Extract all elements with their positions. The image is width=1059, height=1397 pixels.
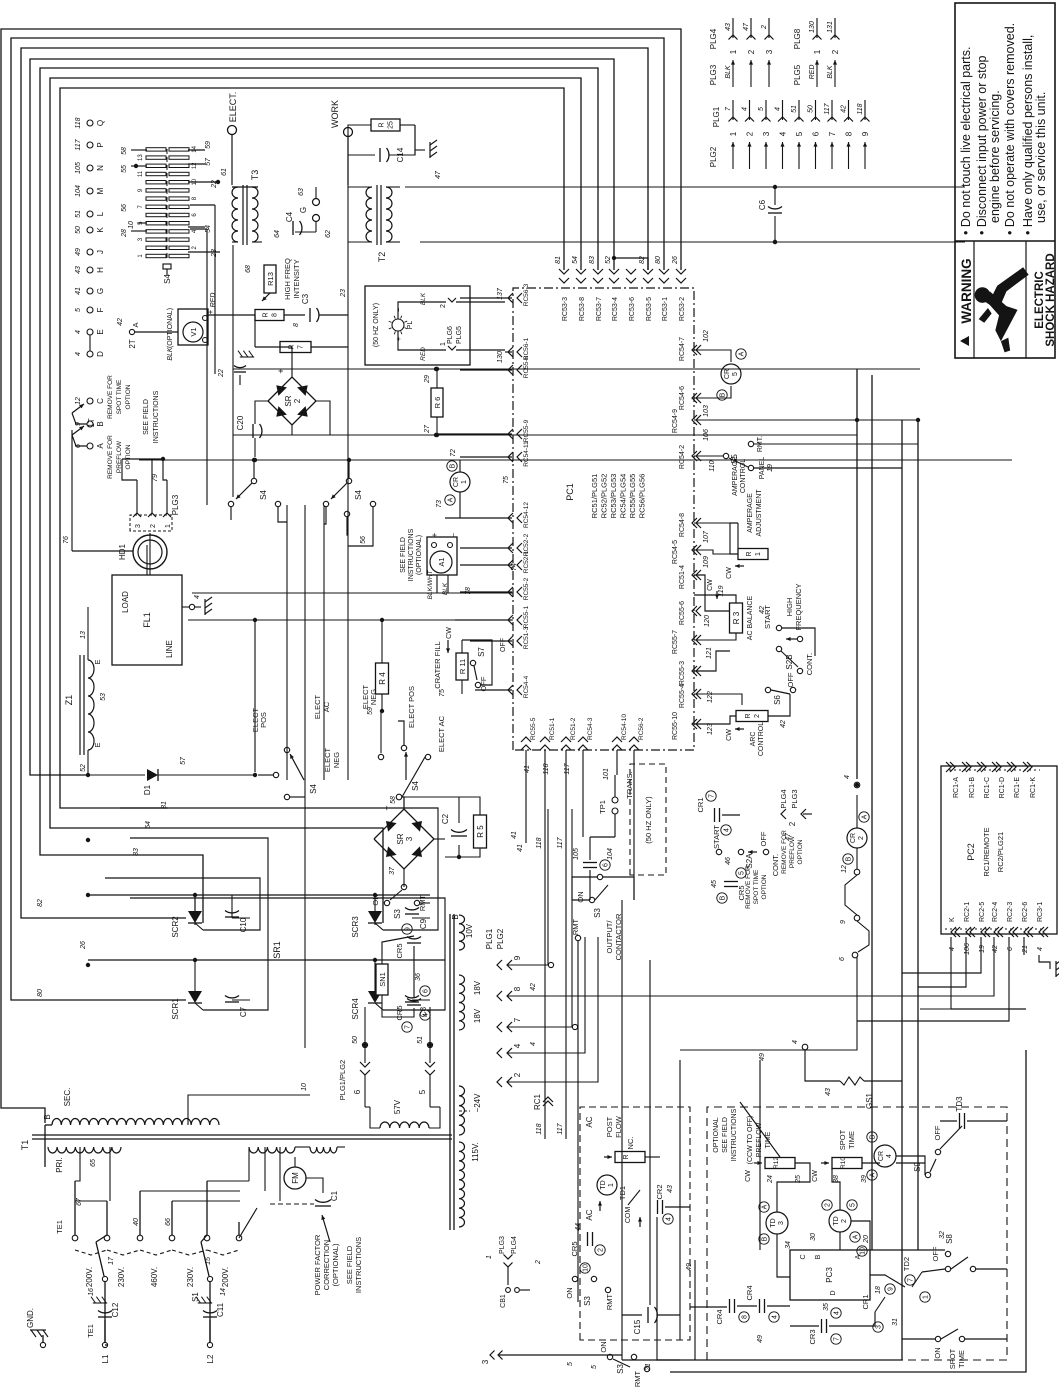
svg-text:RC54-7: RC54-7 [679, 337, 686, 361]
svg-text:SEE FIELD: SEE FIELD [400, 537, 407, 573]
svg-text:5: 5 [850, 1203, 857, 1207]
svg-text:120: 120 [704, 615, 711, 627]
svg-text:C14: C14 [396, 147, 405, 162]
contact CR4 b [759, 1299, 761, 1313]
switch S8 spot time [935, 1336, 940, 1341]
svg-text:130: 130 [497, 351, 504, 363]
voltmeter V1 (optional) [178, 309, 208, 345]
svg-text:ON: ON [599, 1341, 608, 1352]
rectifier SR3 [374, 809, 434, 869]
svg-text:SPOT: SPOT [948, 1348, 957, 1369]
svg-text:4: 4 [792, 1040, 799, 1044]
wire bus 54 [50, 78, 581, 923]
svg-text:18: 18 [875, 1286, 882, 1294]
switch S4 bank lower [346, 478, 351, 483]
capacitor C2 [404, 797, 459, 823]
svg-text:RED: RED [809, 65, 816, 80]
wires TD1 area [606, 1157, 608, 1175]
svg-text:10V: 10V [465, 923, 474, 938]
svg-text:6: 6 [353, 1089, 362, 1094]
svg-text:CW: CW [726, 729, 733, 741]
warning title [960, 336, 969, 346]
svg-text:BLK: BLK [167, 347, 174, 361]
svg-text:TD2: TD2 [902, 1257, 911, 1271]
svg-text:BLK: BLK [420, 292, 427, 305]
svg-text:56: 56 [360, 536, 367, 544]
svg-text:RC54-2: RC54-2 [679, 445, 686, 469]
svg-text:CRATER FILL: CRATER FILL [433, 641, 442, 688]
svg-text:RC55-6: RC55-6 [679, 601, 686, 625]
svg-text:2: 2 [746, 131, 755, 136]
svg-text:TIME: TIME [765, 1131, 772, 1148]
svg-text:!: ! [962, 338, 969, 340]
svg-text:BLK/WHT: BLK/WHT [427, 570, 434, 600]
PC2 wire bends [920, 937, 951, 1009]
wire stubs from PLG pins [530, 809, 548, 965]
svg-text:20: 20 [863, 1235, 870, 1244]
thyristor SCR4 [368, 991, 382, 1003]
svg-text:7: 7 [828, 131, 837, 136]
svg-text:79: 79 [152, 474, 159, 482]
svg-text:3: 3 [481, 1359, 490, 1364]
wires from top-edge connectors [460, 297, 512, 299]
connector 3 bottom [490, 1351, 495, 1360]
svg-text:2: 2 [513, 1072, 522, 1077]
svg-text:3: 3 [762, 131, 771, 136]
svg-text:1: 1 [440, 342, 447, 346]
svg-text:12: 12 [75, 397, 82, 405]
svg-text:64: 64 [274, 230, 281, 238]
svg-text:CONTROL: CONTROL [740, 459, 747, 493]
svg-text:109: 109 [703, 556, 710, 568]
svg-text:8: 8 [742, 1315, 749, 1319]
svg-text:SEC.: SEC. [63, 1088, 72, 1107]
svg-text:NEG: NEG [332, 752, 341, 768]
svg-text:50: 50 [352, 1036, 359, 1044]
svg-text:PLG8: PLG8 [793, 28, 802, 49]
svg-text:RC2-3: RC2-3 [1007, 902, 1014, 922]
circuit card PC3 [790, 1250, 870, 1300]
svg-text:25: 25 [388, 121, 395, 129]
wire 49 run [694, 1260, 696, 1360]
svg-text:115V.: 115V. [471, 1142, 480, 1162]
svg-text:RC53-3: RC53-3 [562, 297, 569, 321]
svg-text:46: 46 [725, 857, 732, 865]
svg-text:B: B [451, 914, 460, 919]
svg-text:RC55-5: RC55-5 [530, 717, 537, 740]
svg-text:CR: CR [453, 477, 460, 487]
svg-text:80: 80 [37, 989, 44, 997]
pot wiper diagonal [740, 1102, 780, 1157]
svg-text:49: 49 [759, 1053, 766, 1061]
svg-text:6: 6 [603, 863, 610, 867]
svg-text:RC55-1: RC55-1 [523, 605, 530, 628]
electric shock icon [975, 267, 1029, 352]
svg-text:COM: COM [625, 1207, 632, 1224]
svg-text:SCR3: SCR3 [351, 916, 360, 938]
svg-text:27: 27 [424, 424, 431, 434]
svg-text:AC: AC [322, 701, 331, 712]
svg-text:5: 5 [75, 308, 82, 312]
svg-text:S4: S4 [163, 274, 172, 284]
svg-text:A: A [853, 1234, 860, 1239]
svg-text:42: 42 [759, 606, 766, 614]
contact CR5 b [407, 1004, 421, 1006]
svg-text:2: 2 [535, 1260, 542, 1265]
svg-text:76: 76 [63, 536, 70, 544]
svg-text:RC51-1: RC51-1 [549, 717, 556, 740]
resistor R25 [371, 119, 400, 131]
svg-text:2: 2 [858, 836, 865, 840]
svg-text:INTENSITY: INTENSITY [292, 259, 301, 298]
wire 41 [525, 750, 527, 843]
wires to primary taps [74, 1181, 76, 1235]
switch S3 on/rmt 10 [572, 1276, 577, 1281]
svg-text:41: 41 [511, 831, 518, 839]
svg-text:21: 21 [1022, 945, 1029, 954]
svg-text:81: 81 [555, 256, 562, 264]
relay CR1 coil [450, 472, 470, 492]
svg-text:22: 22 [218, 369, 225, 378]
svg-text:106: 106 [703, 429, 710, 441]
winding 10V [459, 915, 465, 950]
svg-text:R: R [379, 122, 386, 127]
svg-text:51: 51 [75, 210, 82, 218]
svg-text:54: 54 [205, 225, 212, 233]
svg-text:31: 31 [892, 1318, 899, 1326]
svg-text:RC55-2: RC55-2 [523, 577, 530, 600]
svg-text:CONT.: CONT. [771, 854, 780, 877]
svg-text:43: 43 [825, 1088, 832, 1096]
svg-text:2: 2 [825, 1203, 832, 1207]
svg-text:RC54-4: RC54-4 [523, 675, 530, 698]
svg-text:PLG2: PLG2 [496, 928, 505, 949]
svg-text:Z1: Z1 [64, 695, 74, 706]
svg-text:23: 23 [211, 249, 218, 258]
svg-text:8: 8 [513, 986, 522, 991]
wire 101 to TP1 [616, 750, 618, 775]
svg-text:HIGH: HIGH [785, 598, 794, 617]
svg-text:106: 106 [964, 943, 971, 955]
wire bus 80 [11, 38, 664, 1000]
svg-text:ADJUSTMENT: ADJUSTMENT [756, 489, 763, 537]
svg-text:S3: S3 [393, 909, 402, 919]
wire bus 81 [60, 88, 564, 808]
svg-text:118: 118 [536, 1123, 543, 1134]
svg-text:PLG4: PLG4 [709, 28, 718, 49]
svg-text:TD: TD [833, 1216, 840, 1225]
transformer T1 primary winding 1 [48, 1147, 121, 1153]
wire 79 junction [161, 457, 165, 461]
svg-text:5: 5 [732, 372, 739, 376]
connector RC54-6 [692, 393, 697, 403]
svg-text:AC: AC [585, 1116, 594, 1127]
svg-text:59: 59 [205, 141, 212, 149]
svg-text:P: P [96, 142, 105, 147]
svg-text:65: 65 [90, 1159, 97, 1167]
svg-text:RC53-5: RC53-5 [646, 297, 653, 321]
svg-text:9: 9 [513, 955, 522, 960]
crater fill pot R11 [456, 653, 468, 680]
svg-text:200V.: 200V. [85, 1267, 94, 1287]
svg-text:K: K [949, 917, 956, 922]
stud ELECT. [228, 126, 237, 135]
svg-text:61: 61 [221, 168, 228, 176]
svg-text:3: 3 [876, 1325, 883, 1329]
svg-text:RC1-D: RC1-D [999, 777, 1006, 798]
svg-text:E: E [93, 742, 102, 747]
wire run 680 [679, 1060, 681, 1340]
svg-text:T1: T1 [20, 1140, 30, 1151]
svg-text:B: B [762, 1236, 769, 1241]
svg-text:131: 131 [827, 21, 834, 33]
transformer T1 primary winding 2 [249, 1147, 295, 1153]
wire bus 52 branch [614, 258, 648, 270]
svg-text:9: 9 [840, 920, 847, 924]
svg-text:5: 5 [758, 107, 765, 111]
svg-text:START: START [712, 825, 721, 849]
voltage link terminals [72, 1235, 78, 1241]
svg-text:(OPTIONAL): (OPTIONAL) [167, 308, 174, 348]
svg-text:RC56-3: RC56-3 [523, 283, 530, 306]
svg-text:S3: S3 [616, 1364, 625, 1374]
svg-text:47: 47 [435, 170, 442, 179]
svg-text:107: 107 [703, 530, 710, 543]
svg-text:RC53-6: RC53-6 [629, 297, 636, 321]
svg-text:FREQUENCY: FREQUENCY [794, 583, 803, 630]
svg-text:A1: A1 [437, 557, 446, 566]
svg-text:OFF: OFF [500, 638, 507, 652]
pot R3 AC balance [692, 606, 697, 616]
capacitor C7 [225, 1001, 239, 1003]
svg-text:B: B [720, 392, 727, 397]
svg-text:PLG3: PLG3 [499, 1236, 506, 1254]
svg-text:104: 104 [75, 185, 82, 197]
svg-text:RC51-4: RC51-4 [679, 565, 686, 589]
svg-text:INSTRUCTIONS: INSTRUCTIONS [731, 1108, 738, 1161]
svg-text:1: 1 [813, 49, 822, 54]
svg-text:4: 4 [423, 1013, 430, 1017]
junction dots [434, 367, 438, 371]
resistor R6 [431, 388, 443, 417]
wire bus 82 [21, 48, 648, 918]
svg-text:A: A [131, 322, 140, 327]
svg-text:57V: 57V [393, 1099, 402, 1114]
svg-text:+: + [430, 532, 439, 537]
svg-text:2: 2 [761, 25, 768, 30]
T1 core [32, 1134, 452, 1136]
svg-text:1: 1 [486, 1255, 493, 1259]
svg-text:CR3: CR3 [808, 1329, 817, 1344]
svg-text:CW: CW [707, 579, 714, 591]
thyristor SCR2 [188, 911, 202, 923]
svg-text:CR: CR [850, 833, 857, 843]
svg-text:B: B [96, 421, 105, 426]
svg-text:TE1: TE1 [86, 1324, 95, 1338]
svg-text:AMPERAGE: AMPERAGE [732, 456, 739, 496]
capacitor C4 [292, 221, 294, 235]
contact TD2 32 [912, 1272, 922, 1287]
svg-text:C2: C2 [441, 813, 450, 824]
S4 wiper [163, 264, 171, 269]
svg-text:RC1-B: RC1-B [969, 777, 976, 798]
svg-text:1: 1 [729, 131, 738, 136]
capacitor C6 [774, 216, 776, 242]
svg-text:110: 110 [709, 460, 716, 471]
svg-text:4: 4 [886, 1154, 893, 1158]
svg-text:R: R [745, 713, 752, 718]
contact CR5 a [407, 942, 421, 944]
svg-text:E: E [93, 659, 102, 664]
svg-text:13: 13 [138, 154, 144, 161]
svg-text:+: + [206, 309, 215, 314]
svg-text:D: D [830, 1290, 837, 1295]
relay TD2 coil [829, 1210, 851, 1232]
svg-text:7: 7 [405, 1025, 412, 1029]
svg-text:T2: T2 [377, 252, 387, 263]
svg-text:1: 1 [729, 49, 738, 54]
svg-text:4: 4 [75, 352, 82, 356]
svg-text:LOAD: LOAD [121, 591, 130, 613]
svg-text:4: 4 [666, 1217, 673, 1221]
svg-text:C: C [96, 398, 105, 404]
svg-text:19: 19 [979, 945, 986, 953]
connector column RC1-A..K [949, 769, 1040, 771]
node 37 switch S3 [401, 884, 406, 889]
svg-text:82: 82 [639, 256, 646, 264]
svg-text:INSTRUCTIONS: INSTRUCTIONS [408, 528, 415, 581]
svg-text:A: A [448, 497, 455, 502]
svg-text:5: 5 [591, 1365, 598, 1369]
svg-text:14: 14 [220, 1288, 227, 1296]
switch S4 elect pos/neg (left set) [273, 772, 278, 777]
thyristor SCR1 [188, 991, 202, 1003]
wire from POS junction to bus [254, 620, 256, 772]
svg-text:L2: L2 [206, 1354, 215, 1363]
thyristor SCR3 [368, 911, 382, 923]
svg-text:117: 117 [824, 102, 831, 114]
svg-text:42: 42 [992, 945, 999, 953]
svg-text:R 5: R 5 [476, 825, 485, 838]
svg-text:RC55-7: RC55-7 [672, 630, 679, 654]
svg-text:(OPTIONAL): (OPTIONAL) [331, 1243, 340, 1286]
svg-text:1T: 1T [87, 418, 96, 427]
svg-text:RC51-3: RC51-3 [523, 626, 530, 649]
winding -24V [459, 1086, 465, 1135]
svg-text:(CCW TO OFF): (CCW TO OFF) [747, 1116, 754, 1165]
relay CR2 + node 4 [855, 783, 859, 787]
contact CR2 43 [583, 867, 597, 869]
svg-text:28: 28 [121, 229, 128, 238]
svg-text:50: 50 [808, 105, 815, 113]
svg-text:2: 2 [831, 49, 840, 54]
svg-text:45: 45 [711, 880, 718, 888]
wire run 657 [657, 1217, 680, 1360]
svg-text:3: 3 [405, 836, 414, 841]
capacitor C1 [337, 1146, 345, 1148]
svg-text:43: 43 [725, 23, 732, 31]
svg-text:OUTPUT/: OUTPUT/ [605, 920, 614, 954]
svg-text:56: 56 [121, 204, 128, 212]
svg-text:WARNING: WARNING [959, 258, 974, 323]
svg-text:PLG1: PLG1 [485, 928, 494, 949]
stud WORK [344, 128, 353, 137]
svg-text:57: 57 [205, 157, 212, 166]
svg-text:ELECT: ELECT [323, 748, 332, 773]
svg-text:CR: CR [724, 369, 731, 379]
svg-text:REMOVE FOR: REMOVE FOR [107, 375, 114, 419]
svg-text:SCR2: SCR2 [171, 916, 180, 938]
svg-text:WORK: WORK [330, 100, 340, 128]
svg-text:RC2/PLG21: RC2/PLG21 [996, 832, 1005, 872]
SR1 gate wires [105, 878, 260, 930]
wire S3 bottom run [621, 900, 623, 1360]
svg-text:RC1: RC1 [533, 1093, 542, 1110]
svg-text:24: 24 [767, 1175, 774, 1184]
svg-text:AC: AC [585, 1209, 594, 1220]
svg-text:PLG1: PLG1 [712, 106, 721, 127]
svg-text:RC54/PLG54: RC54/PLG54 [619, 474, 628, 519]
rotary switch S4 ladder [166, 146, 168, 258]
svg-text:AMPERAGE: AMPERAGE [747, 493, 754, 533]
svg-text:RED: RED [210, 293, 217, 308]
svg-text:4: 4 [194, 595, 201, 599]
connector RC54-5 [692, 545, 697, 555]
svg-text:102: 102 [703, 330, 710, 342]
svg-text:REMOVE FOR: REMOVE FOR [781, 830, 788, 874]
svg-text:B: B [43, 1114, 52, 1119]
SR1 rails [88, 894, 430, 896]
svg-text:R: R [623, 1154, 630, 1159]
svg-text:RMT: RMT [633, 1370, 642, 1387]
svg-text:ARC: ARC [750, 732, 757, 747]
svg-text:−: − [451, 533, 458, 537]
svg-text:SN1: SN1 [378, 972, 387, 987]
svg-text:R10: R10 [840, 1157, 847, 1169]
svg-text:7: 7 [513, 1017, 522, 1022]
capacitor C10 [194, 895, 196, 911]
svg-text:52: 52 [605, 256, 612, 264]
svg-text:OPTION: OPTION [761, 874, 768, 899]
svg-text:A: A [862, 814, 869, 819]
connector PLG4 PLG3 pin2 [781, 809, 786, 819]
capacitor C9 [405, 913, 419, 915]
svg-text:SCR4: SCR4 [351, 998, 360, 1020]
svg-text:43: 43 [75, 266, 82, 274]
svg-text:SEE FIELD: SEE FIELD [345, 1245, 354, 1284]
svg-text:26: 26 [672, 256, 679, 265]
svg-text:118: 118 [543, 763, 550, 774]
svg-text:RC1-K: RC1-K [1030, 777, 1037, 798]
svg-text:35: 35 [823, 1303, 830, 1311]
svg-text:42: 42 [780, 720, 787, 728]
ground PC2 [1056, 959, 1059, 977]
svg-text:230V.: 230V. [117, 1267, 126, 1287]
wire bus 52 [30, 59, 614, 775]
svg-text:12: 12 [841, 865, 848, 873]
svg-text:83: 83 [133, 848, 140, 856]
svg-text:42: 42 [530, 983, 537, 991]
svg-text:105: 105 [573, 848, 580, 860]
svg-text:R 11: R 11 [458, 659, 467, 674]
svg-text:117: 117 [557, 836, 564, 848]
svg-text:RC1-A: RC1-A [953, 777, 960, 798]
svg-text:ON: ON [576, 891, 585, 902]
wire C15 run [649, 960, 651, 1305]
svg-text:G: G [96, 288, 105, 294]
voltage jumper links [75, 1250, 107, 1255]
svg-text:T3: T3 [250, 170, 260, 181]
